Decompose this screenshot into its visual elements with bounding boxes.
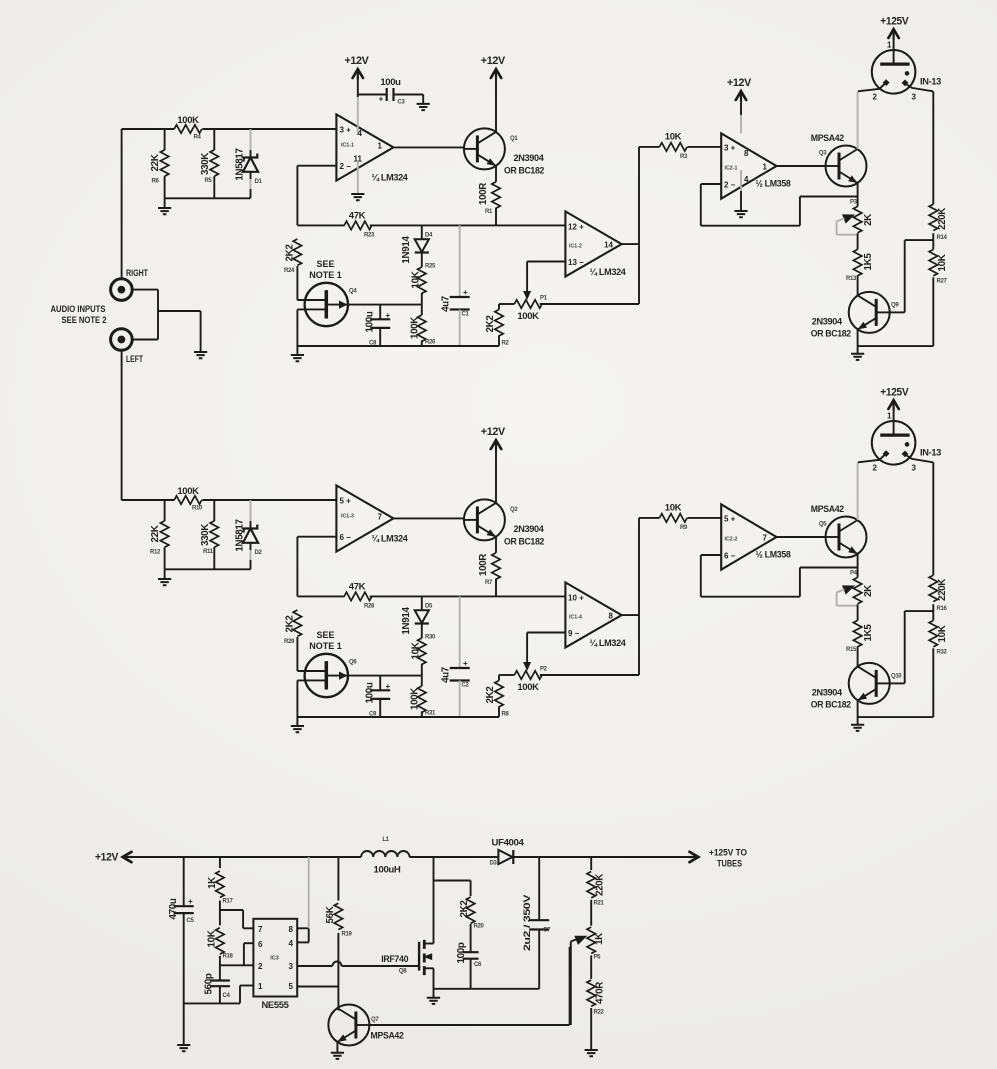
svg-text:D1: D1 bbox=[255, 179, 263, 185]
resistor R23 47K feedback bbox=[297, 224, 344, 226]
resistor R6 22K bbox=[164, 129, 166, 150]
svg-text:P3: P3 bbox=[850, 200, 858, 206]
svg-text:7: 7 bbox=[258, 925, 263, 934]
svg-text:7: 7 bbox=[763, 533, 768, 542]
ground bbox=[296, 346, 298, 355]
svg-text:100R: 100R bbox=[478, 183, 489, 205]
svg-text:R28: R28 bbox=[364, 603, 375, 609]
svg-text:C3: C3 bbox=[398, 100, 406, 106]
svg-text:4: 4 bbox=[744, 175, 749, 184]
wire input line left channel bbox=[122, 499, 175, 501]
wire pin 5 to Q7 collector bbox=[297, 986, 338, 988]
potentiometer P2 100K bbox=[514, 671, 542, 679]
wire op-amp output node bbox=[622, 614, 639, 616]
wire feedback loop IC2 bbox=[701, 183, 721, 185]
svg-text:R20: R20 bbox=[474, 924, 485, 930]
resistor R3 10K bbox=[639, 146, 660, 148]
svg-text:+125V TO: +125V TO bbox=[709, 848, 747, 858]
svg-text:11: 11 bbox=[354, 155, 363, 164]
wire resistor network rail bbox=[165, 197, 251, 199]
wire pin 7 bbox=[243, 927, 253, 929]
diode D3 UF4004 bbox=[498, 850, 512, 864]
svg-text:1: 1 bbox=[887, 41, 892, 50]
svg-text:2K2: 2K2 bbox=[285, 244, 296, 262]
svg-text:6 −: 6 − bbox=[724, 551, 736, 560]
svg-text:Q5: Q5 bbox=[819, 522, 827, 528]
op-amp IC1-2 quarter LM324 bbox=[565, 211, 621, 276]
svg-text:L1: L1 bbox=[382, 837, 389, 843]
wire base to divider bbox=[890, 682, 905, 684]
svg-text:P1: P1 bbox=[540, 296, 548, 302]
ground bbox=[296, 717, 298, 726]
capacitor C3 100u bbox=[358, 94, 387, 96]
svg-text:½ LM358: ½ LM358 bbox=[756, 178, 791, 189]
capacitor C8 100u bbox=[379, 305, 381, 319]
svg-text:IC1-1: IC1-1 bbox=[341, 143, 354, 149]
svg-text:¼ LM324: ¼ LM324 bbox=[372, 173, 409, 184]
svg-text:220K: 220K bbox=[937, 579, 948, 601]
svg-text:100K: 100K bbox=[410, 317, 421, 339]
resistor R19 56K bbox=[337, 857, 339, 901]
svg-text:5 +: 5 + bbox=[340, 497, 352, 506]
node RIGHT input jack bbox=[111, 279, 133, 301]
svg-text:1: 1 bbox=[258, 982, 263, 991]
svg-text:C7: C7 bbox=[543, 928, 551, 934]
svg-text:IC1-3: IC1-3 bbox=[341, 514, 354, 520]
svg-text:10K: 10K bbox=[937, 625, 948, 642]
svg-text:+12V: +12V bbox=[95, 852, 119, 864]
wire right jack to input line bbox=[121, 129, 123, 279]
wire op-amp output node bbox=[622, 243, 639, 245]
wire emitter node bbox=[857, 554, 859, 577]
svg-text:100u: 100u bbox=[365, 682, 376, 703]
svg-text:R22: R22 bbox=[594, 1010, 605, 1016]
svg-text:IC3: IC3 bbox=[270, 956, 279, 962]
resistor R31 100K bbox=[418, 686, 426, 712]
svg-text:R2: R2 bbox=[502, 341, 510, 347]
svg-text:R8: R8 bbox=[502, 712, 510, 718]
transistor Q4 SEE NOTE 1 bbox=[305, 283, 348, 326]
svg-text:C5: C5 bbox=[187, 918, 195, 924]
svg-text:+12V: +12V bbox=[345, 55, 370, 67]
wire emitter to ground bbox=[857, 329, 859, 346]
svg-text:P4: P4 bbox=[850, 571, 858, 577]
svg-text:2K: 2K bbox=[863, 585, 874, 597]
svg-text:100K: 100K bbox=[177, 115, 199, 126]
transistor Q2 2N3904 bbox=[464, 499, 505, 540]
svg-text:R25: R25 bbox=[425, 264, 436, 270]
svg-text:C4: C4 bbox=[223, 993, 231, 999]
svg-text:OR BC182: OR BC182 bbox=[811, 328, 851, 339]
svg-text:R18: R18 bbox=[223, 954, 234, 960]
svg-text:+: + bbox=[463, 659, 468, 668]
svg-text:+: + bbox=[188, 897, 193, 906]
wire resistor network rail bbox=[165, 568, 251, 570]
wire collector to tube pin 2 bbox=[857, 462, 859, 520]
svg-text:2K2: 2K2 bbox=[485, 686, 496, 704]
svg-text:SEE: SEE bbox=[316, 259, 334, 269]
svg-text:+12V: +12V bbox=[481, 426, 506, 438]
svg-text:100K: 100K bbox=[177, 486, 199, 497]
wire pin 1 bbox=[240, 985, 253, 987]
svg-text:10K: 10K bbox=[937, 254, 948, 271]
capacitor C6 100p bbox=[470, 924, 472, 952]
op-amp IC2-2 half LM358 bbox=[721, 504, 776, 569]
resistor R30 10K bbox=[418, 638, 426, 664]
svg-text:3 +: 3 + bbox=[724, 143, 736, 152]
potentiometer P4 2K bbox=[853, 577, 861, 603]
svg-text:10K: 10K bbox=[665, 503, 682, 514]
svg-text:C6: C6 bbox=[474, 962, 482, 968]
capacitor C2 4u7 bbox=[459, 596, 461, 668]
svg-text:IC1-2: IC1-2 bbox=[569, 244, 582, 250]
svg-text:9 −: 9 − bbox=[568, 629, 580, 638]
svg-text:SEE NOTE 2: SEE NOTE 2 bbox=[62, 315, 107, 325]
resistor R24 2K2 bbox=[293, 239, 301, 265]
svg-text:R4: R4 bbox=[194, 135, 202, 141]
svg-text:1N914: 1N914 bbox=[401, 607, 412, 635]
svg-text:LEFT: LEFT bbox=[126, 354, 143, 364]
svg-text:R7: R7 bbox=[485, 580, 493, 586]
svg-text:Q1: Q1 bbox=[510, 136, 518, 142]
svg-text:8: 8 bbox=[289, 925, 294, 934]
svg-text:2K2: 2K2 bbox=[459, 900, 470, 918]
svg-text:8: 8 bbox=[609, 612, 614, 621]
svg-text:+12V: +12V bbox=[727, 77, 752, 89]
svg-text:220K: 220K bbox=[937, 208, 948, 230]
resistor R21 220K bbox=[590, 857, 592, 870]
wire collector to tube pin 2 bbox=[857, 91, 859, 149]
svg-text:R17: R17 bbox=[223, 899, 234, 905]
svg-text:2 −: 2 − bbox=[340, 162, 352, 171]
svg-text:R11: R11 bbox=[203, 549, 214, 555]
wire emitter to ground bbox=[857, 700, 859, 717]
svg-text:100K: 100K bbox=[517, 311, 539, 322]
+12V supply arrow bbox=[740, 98, 742, 115]
svg-text:SEE: SEE bbox=[316, 630, 334, 640]
ground bbox=[857, 346, 859, 354]
svg-text:7: 7 bbox=[378, 513, 383, 522]
ground bbox=[331, 1053, 344, 1059]
inductor L1 100uH bbox=[361, 851, 409, 857]
svg-text:NE555: NE555 bbox=[262, 1000, 290, 1011]
svg-text:2u2 / 350V: 2u2 / 350V bbox=[522, 894, 533, 951]
svg-text:R15: R15 bbox=[846, 647, 857, 653]
transistor Q9 2N3904 bbox=[849, 292, 890, 333]
svg-text:R9: R9 bbox=[680, 525, 688, 531]
svg-text:IC1-4: IC1-4 bbox=[569, 615, 582, 621]
ground bbox=[857, 717, 859, 725]
svg-text:2K: 2K bbox=[863, 214, 874, 226]
resistor R18 10K bbox=[216, 928, 224, 954]
svg-text:C1: C1 bbox=[462, 312, 470, 318]
svg-text:1N5817: 1N5817 bbox=[234, 147, 245, 180]
wire pot to output bbox=[540, 303, 639, 305]
diode D2 1N5817 bbox=[250, 500, 252, 521]
transistor Q7 MPSA42 bbox=[328, 1005, 369, 1046]
svg-text:100uH: 100uH bbox=[374, 865, 401, 876]
svg-text:MPSA42: MPSA42 bbox=[811, 504, 844, 515]
diode D5 1N914 bbox=[421, 596, 423, 610]
svg-text:100K: 100K bbox=[517, 682, 539, 693]
capacitor C7 2u2 350V bbox=[538, 857, 540, 920]
svg-text:100u: 100u bbox=[365, 311, 376, 332]
svg-text:MPSA42: MPSA42 bbox=[371, 1031, 404, 1042]
svg-text:R27: R27 bbox=[937, 279, 948, 285]
wire bottom rail bbox=[297, 345, 499, 347]
svg-text:330K: 330K bbox=[200, 524, 211, 546]
wire bottom rail 555 bbox=[184, 1002, 240, 1004]
potentiometer P5 1K bbox=[587, 927, 595, 953]
svg-text:1N914: 1N914 bbox=[401, 236, 412, 264]
svg-text:+: + bbox=[386, 311, 391, 320]
svg-text:R31: R31 bbox=[425, 711, 436, 717]
svg-text:3: 3 bbox=[289, 962, 294, 971]
svg-text:1N5817: 1N5817 bbox=[234, 518, 245, 551]
svg-text:560p: 560p bbox=[204, 973, 215, 994]
svg-text:¼ LM324: ¼ LM324 bbox=[372, 534, 409, 545]
wire input line right channel bbox=[122, 128, 175, 130]
svg-text:1: 1 bbox=[763, 162, 768, 171]
ground bbox=[585, 1050, 598, 1056]
resistor R14 220K bbox=[932, 91, 934, 204]
svg-text:R24: R24 bbox=[284, 268, 295, 274]
power pin 8 wire bbox=[740, 115, 742, 133]
svg-text:C2: C2 bbox=[462, 683, 470, 689]
resistor R1 100R bbox=[495, 166, 497, 182]
wire Q7 base bbox=[369, 1024, 569, 1026]
resistor R17 1K bbox=[219, 857, 221, 868]
mosfet Q8 IRF740 bbox=[418, 942, 420, 971]
svg-text:P2: P2 bbox=[540, 667, 548, 673]
svg-text:22K: 22K bbox=[150, 525, 161, 542]
svg-text:R5: R5 bbox=[205, 178, 213, 184]
svg-text:2 −: 2 − bbox=[724, 180, 736, 189]
svg-text:R16: R16 bbox=[937, 606, 948, 612]
wire base to divider bbox=[890, 311, 905, 313]
svg-text:¼ LM324: ¼ LM324 bbox=[590, 267, 627, 278]
resistor R25 10K bbox=[418, 267, 426, 293]
resistor R7 100R bbox=[495, 537, 497, 553]
svg-text:R21: R21 bbox=[594, 901, 605, 907]
transistor Q6 SEE NOTE 1 bbox=[305, 654, 348, 697]
wire left jack to channel 2 bbox=[121, 350, 123, 500]
svg-text:IN-13: IN-13 bbox=[920, 77, 941, 88]
wire jack sleeves to ground bbox=[132, 289, 158, 291]
svg-text:5: 5 bbox=[289, 982, 294, 991]
svg-text:Q4: Q4 bbox=[349, 289, 357, 295]
svg-text:1: 1 bbox=[887, 412, 892, 421]
ground bbox=[164, 198, 166, 208]
svg-text:12 +: 12 + bbox=[568, 222, 584, 231]
svg-text:2: 2 bbox=[873, 93, 878, 102]
svg-text:1K5: 1K5 bbox=[863, 624, 874, 642]
svg-text:2N3904: 2N3904 bbox=[514, 524, 545, 535]
svg-text:100p: 100p bbox=[456, 942, 467, 963]
svg-text:4: 4 bbox=[289, 939, 294, 948]
svg-text:13 −: 13 − bbox=[568, 258, 584, 267]
svg-text:D4: D4 bbox=[425, 233, 433, 239]
ground bbox=[417, 104, 430, 110]
resistor R4 100K bbox=[174, 125, 202, 133]
transistor Q1 2N3904 bbox=[464, 128, 505, 169]
wire feedback loop IC2 bbox=[701, 554, 721, 556]
resistor R32 10K bbox=[929, 620, 937, 646]
resistor R29 2K2 bbox=[293, 610, 301, 636]
svg-text:+125V: +125V bbox=[880, 16, 909, 28]
svg-text:330K: 330K bbox=[200, 153, 211, 175]
svg-text:AUDIO INPUTS: AUDIO INPUTS bbox=[51, 304, 106, 314]
svg-text:+: + bbox=[379, 95, 384, 104]
svg-text:P5: P5 bbox=[594, 955, 602, 961]
resistor R13 1K5 bbox=[853, 249, 861, 275]
svg-text:R1: R1 bbox=[485, 209, 493, 215]
svg-text:4u7: 4u7 bbox=[441, 295, 452, 312]
+12V supply arrow bbox=[495, 76, 497, 132]
svg-text:100K: 100K bbox=[410, 688, 421, 710]
svg-text:10K: 10K bbox=[665, 132, 682, 143]
node +125V to tubes bbox=[690, 852, 699, 862]
svg-text:D2: D2 bbox=[255, 550, 263, 556]
op-amp IC1-1 quarter LM324 bbox=[336, 114, 393, 180]
nixie bargraph tube IN-13 bbox=[872, 50, 916, 94]
svg-text:Q10: Q10 bbox=[891, 674, 902, 680]
svg-text:R13: R13 bbox=[846, 276, 857, 282]
svg-text:3: 3 bbox=[912, 464, 917, 473]
svg-text:56K: 56K bbox=[325, 906, 336, 923]
svg-text:+12V: +12V bbox=[481, 55, 506, 67]
resistor R11 330K bbox=[213, 500, 215, 521]
ground bbox=[177, 1045, 190, 1051]
wire emitter node bbox=[857, 183, 859, 206]
ground bbox=[194, 352, 207, 358]
svg-text:2N3904: 2N3904 bbox=[812, 317, 843, 328]
svg-text:R3: R3 bbox=[680, 154, 688, 160]
svg-text:Q3: Q3 bbox=[819, 151, 827, 157]
wire pin 6 pin 2 bbox=[244, 942, 254, 944]
svg-text:OR BC182: OR BC182 bbox=[504, 165, 544, 176]
svg-text:OR BC182: OR BC182 bbox=[504, 536, 544, 547]
ground bbox=[351, 194, 364, 200]
wire tube pin 3 bbox=[907, 85, 933, 92]
svg-text:OR BC182: OR BC182 bbox=[811, 699, 851, 710]
capacitor C4 560p bbox=[210, 981, 230, 987]
svg-text:NOTE 1: NOTE 1 bbox=[309, 641, 342, 651]
svg-text:IRF740: IRF740 bbox=[381, 954, 408, 965]
wire pot to output bbox=[540, 674, 639, 676]
svg-text:2K2: 2K2 bbox=[485, 315, 496, 333]
svg-text:R23: R23 bbox=[364, 232, 375, 238]
svg-text:47K: 47K bbox=[349, 581, 366, 592]
wire tube pin 1 +125V bbox=[893, 408, 895, 421]
svg-text:4: 4 bbox=[358, 129, 363, 138]
wire pin 3 to gate with hop bbox=[297, 965, 332, 967]
svg-text:1K: 1K bbox=[594, 933, 605, 945]
svg-text:R30: R30 bbox=[425, 635, 436, 641]
svg-text:D5: D5 bbox=[425, 604, 433, 610]
resistor R28 47K feedback bbox=[297, 595, 344, 597]
wire bottom rail bbox=[297, 716, 499, 718]
svg-text:2K2: 2K2 bbox=[285, 615, 296, 633]
resistor R20 2K2 bbox=[466, 897, 474, 923]
svg-text:470u: 470u bbox=[168, 898, 179, 919]
resistor R10 100K bbox=[174, 496, 202, 504]
+12V supply arrow bbox=[495, 447, 497, 503]
node +12V supply rail bbox=[123, 852, 132, 862]
svg-text:3: 3 bbox=[912, 93, 917, 102]
timer IC3 NE555 bbox=[253, 919, 297, 997]
ground pin 4 wire bbox=[740, 170, 742, 191]
svg-text:+: + bbox=[463, 288, 468, 297]
svg-text:MPSA42: MPSA42 bbox=[811, 133, 844, 144]
svg-text:100u: 100u bbox=[380, 77, 401, 88]
svg-text:Q2: Q2 bbox=[510, 507, 518, 513]
svg-text:¼ LM324: ¼ LM324 bbox=[590, 638, 627, 649]
wire tube pin 2 bbox=[858, 455, 885, 462]
op-amp IC1-3 quarter LM324 bbox=[336, 485, 393, 551]
svg-text:D3: D3 bbox=[490, 861, 498, 867]
transistor Q5 MPSA42 bbox=[826, 517, 867, 558]
resistor R12 22K bbox=[164, 500, 166, 521]
transistor Q10 2N3904 bbox=[849, 663, 890, 704]
wire tube pin 3 bbox=[907, 456, 933, 463]
svg-text:½ LM358: ½ LM358 bbox=[756, 549, 791, 560]
svg-text:6: 6 bbox=[258, 940, 263, 949]
resistor R22 470R bbox=[590, 955, 592, 979]
resistor R15 1K5 bbox=[853, 620, 861, 646]
resistor R16 220K bbox=[932, 462, 934, 575]
svg-text:+125V: +125V bbox=[880, 387, 909, 399]
svg-text:IC2-2: IC2-2 bbox=[725, 537, 738, 543]
diode D4 1N914 bbox=[421, 225, 423, 239]
svg-text:1: 1 bbox=[378, 142, 383, 151]
svg-text:Q8: Q8 bbox=[399, 969, 407, 975]
svg-text:10K: 10K bbox=[411, 642, 422, 659]
nixie bargraph tube IN-13 bbox=[872, 421, 916, 465]
ground pin 11 wire bbox=[357, 162, 359, 194]
svg-text:4u7: 4u7 bbox=[441, 666, 452, 683]
svg-text:10 +: 10 + bbox=[568, 593, 584, 602]
op-amp IC1-4 quarter LM324 bbox=[565, 582, 621, 647]
+12V supply arrow bbox=[357, 76, 359, 97]
svg-text:IN-13: IN-13 bbox=[920, 448, 941, 459]
capacitor C5 470u bbox=[183, 857, 185, 906]
svg-text:47K: 47K bbox=[349, 210, 366, 221]
svg-text:R26: R26 bbox=[425, 340, 436, 346]
resistor R9 10K bbox=[639, 517, 660, 519]
svg-text:NOTE 1: NOTE 1 bbox=[309, 270, 342, 280]
wire tube pin 1 +125V bbox=[893, 37, 895, 50]
capacitor C9 100u bbox=[379, 676, 381, 690]
diode D1 1N5817 bbox=[250, 129, 252, 150]
svg-text:R12: R12 bbox=[150, 550, 161, 556]
svg-text:R10: R10 bbox=[192, 506, 203, 512]
svg-text:10K: 10K bbox=[411, 271, 422, 288]
resistor R27 10K bbox=[929, 249, 937, 275]
svg-text:+: + bbox=[386, 682, 391, 691]
svg-text:UF4004: UF4004 bbox=[492, 838, 525, 849]
svg-text:2N3904: 2N3904 bbox=[812, 688, 843, 699]
svg-text:10K: 10K bbox=[207, 930, 218, 947]
svg-text:Q7: Q7 bbox=[371, 1017, 379, 1023]
svg-text:Q9: Q9 bbox=[891, 303, 899, 309]
svg-text:1K: 1K bbox=[207, 877, 218, 889]
node LEFT input jack bbox=[111, 329, 133, 351]
svg-text:TUBES: TUBES bbox=[717, 859, 742, 869]
svg-text:14: 14 bbox=[604, 241, 613, 250]
ground bbox=[427, 998, 440, 1004]
svg-text:R6: R6 bbox=[152, 179, 160, 185]
